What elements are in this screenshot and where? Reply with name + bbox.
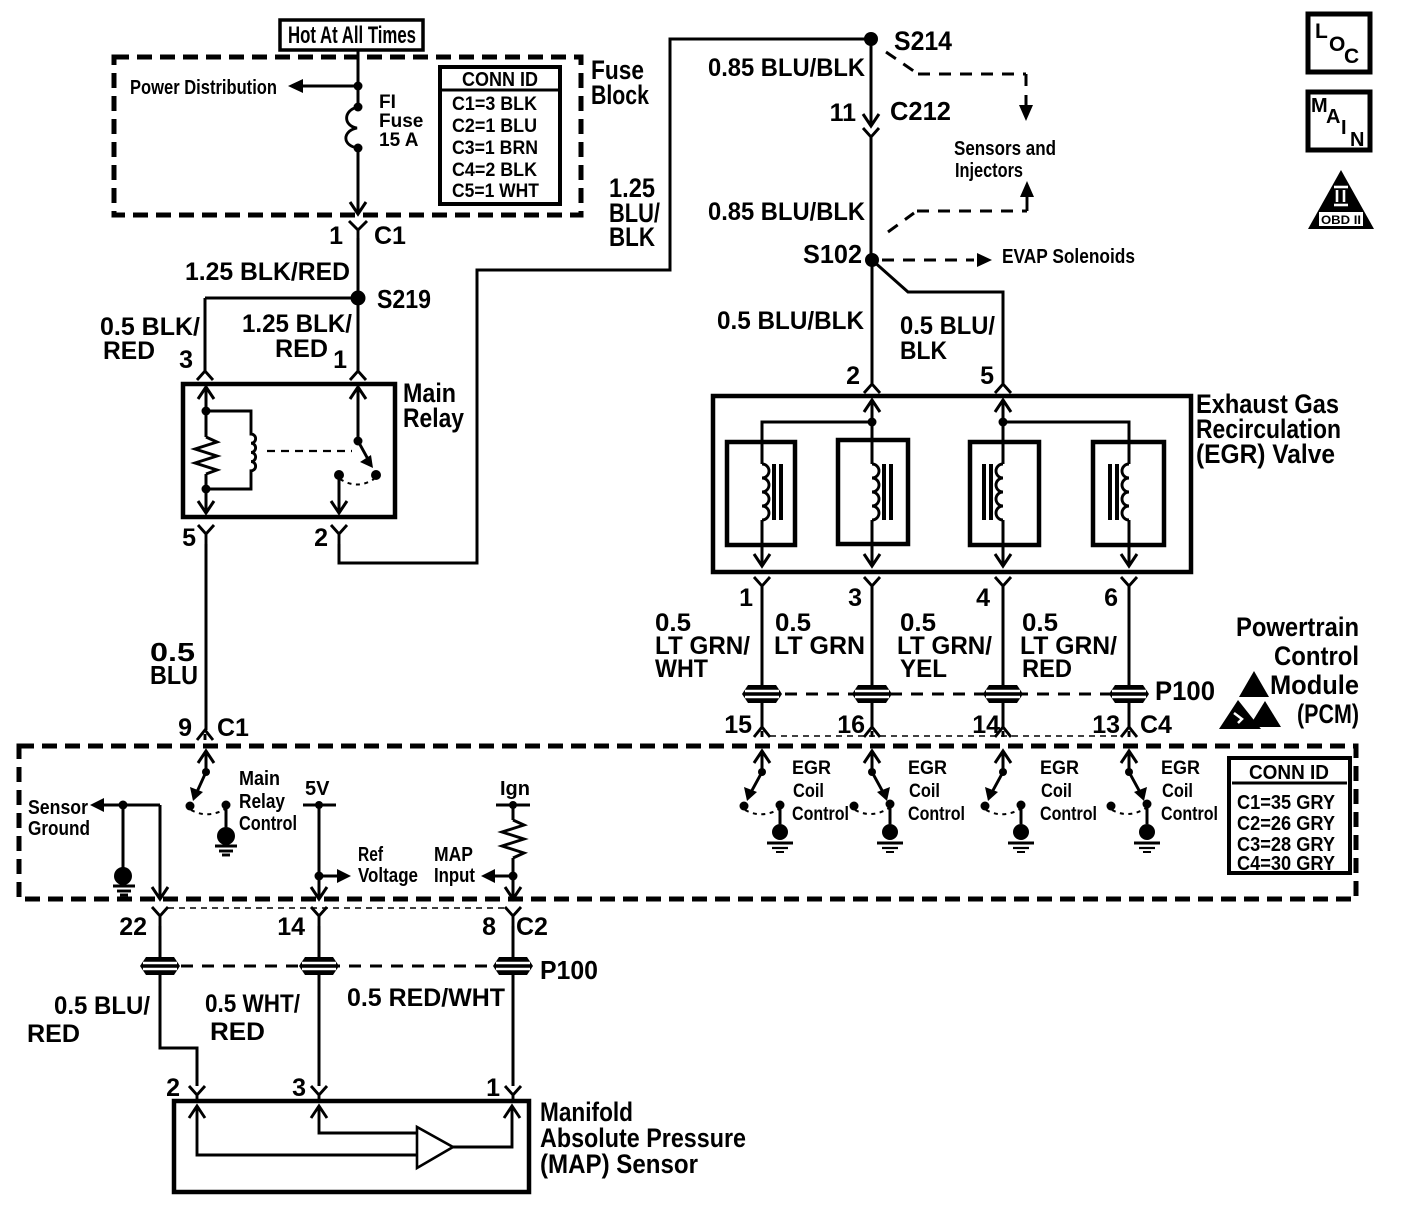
svg-text:LT GRN: LT GRN: [774, 632, 865, 660]
svg-text:(PCM): (PCM): [1297, 699, 1359, 729]
svg-text:C2=26 GRY: C2=26 GRY: [1237, 813, 1336, 835]
svg-text:RED: RED: [103, 337, 155, 365]
svg-text:Block: Block: [591, 80, 650, 110]
svg-text:RED: RED: [275, 335, 328, 363]
svg-text:Relay: Relay: [239, 791, 286, 813]
svg-text:Relay: Relay: [403, 403, 464, 433]
svg-text:Control: Control: [1274, 641, 1359, 671]
svg-text:BLK: BLK: [609, 222, 655, 252]
svg-text:0.5 BLU/: 0.5 BLU/: [900, 312, 995, 340]
svg-text:C5=1 WHT: C5=1 WHT: [452, 181, 539, 202]
svg-text:BLK: BLK: [900, 337, 947, 365]
svg-text:1.25 BLK/: 1.25 BLK/: [242, 310, 352, 338]
svg-text:Coil: Coil: [1162, 781, 1193, 802]
svg-text:C4=2 BLK: C4=2 BLK: [452, 160, 537, 181]
svg-text:Module: Module: [1270, 670, 1359, 700]
svg-text:C2: C2: [516, 913, 548, 941]
svg-text:A: A: [1326, 106, 1340, 128]
svg-text:Voltage: Voltage: [358, 865, 418, 887]
svg-text:C: C: [1344, 45, 1359, 68]
svg-text:EGR: EGR: [908, 758, 947, 779]
svg-text:22: 22: [119, 913, 147, 941]
svg-text:3: 3: [292, 1074, 306, 1102]
svg-text:13: 13: [1092, 711, 1120, 739]
svg-text:(MAP) Sensor: (MAP) Sensor: [540, 1149, 698, 1179]
svg-text:P100: P100: [1155, 676, 1215, 706]
svg-text:P100: P100: [540, 955, 598, 985]
svg-text:2: 2: [846, 362, 860, 390]
svg-text:0.5 BLU/: 0.5 BLU/: [54, 992, 150, 1020]
svg-text:14: 14: [277, 913, 305, 941]
svg-text:5: 5: [980, 362, 994, 390]
svg-text:L: L: [1315, 20, 1328, 43]
svg-text:C3=1 BRN: C3=1 BRN: [452, 138, 538, 159]
svg-text:EVAP Solenoids: EVAP Solenoids: [1002, 246, 1135, 268]
svg-text:3: 3: [179, 346, 193, 374]
svg-text:FI: FI: [379, 92, 396, 113]
svg-text:(EGR) Valve: (EGR) Valve: [1196, 439, 1335, 469]
svg-text:CONN ID: CONN ID: [462, 69, 538, 91]
svg-text:Control: Control: [1040, 804, 1097, 825]
svg-text:Control: Control: [239, 813, 297, 835]
svg-text:4: 4: [976, 584, 990, 612]
svg-text:Ground: Ground: [28, 818, 90, 840]
svg-text:1: 1: [333, 346, 347, 374]
svg-text:1: 1: [486, 1074, 500, 1102]
svg-text:Sensors and: Sensors and: [954, 138, 1056, 160]
svg-text:C212: C212: [890, 96, 951, 126]
svg-text:OBD II: OBD II: [1321, 213, 1361, 227]
svg-text:RED: RED: [27, 1020, 80, 1048]
svg-text:Control: Control: [908, 804, 965, 825]
svg-text:O: O: [1329, 33, 1345, 56]
svg-text:1: 1: [739, 584, 753, 612]
svg-text:YEL: YEL: [900, 655, 947, 683]
svg-text:Input: Input: [434, 865, 475, 887]
svg-text:C1: C1: [217, 714, 249, 742]
svg-text:BLU: BLU: [150, 660, 198, 690]
svg-text:C1: C1: [374, 222, 406, 250]
svg-text:WHT: WHT: [655, 655, 708, 683]
svg-text:CONN ID: CONN ID: [1249, 762, 1329, 784]
svg-text:Coil: Coil: [793, 781, 824, 802]
svg-text:Sensor: Sensor: [28, 797, 88, 819]
svg-text:RED: RED: [210, 1018, 265, 1046]
svg-text:16: 16: [837, 711, 865, 739]
svg-text:C2=1 BLU: C2=1 BLU: [452, 116, 537, 137]
svg-text:0.85 BLU/BLK: 0.85 BLU/BLK: [708, 198, 865, 226]
svg-text:6: 6: [1104, 584, 1118, 612]
svg-text:5: 5: [182, 524, 196, 552]
svg-text:I: I: [1341, 117, 1347, 139]
svg-text:Ign: Ign: [500, 778, 530, 800]
svg-text:Ref: Ref: [358, 844, 383, 866]
svg-text:C1=3 BLK: C1=3 BLK: [452, 94, 537, 115]
svg-text:S214: S214: [894, 26, 952, 56]
svg-text:Power Distribution: Power Distribution: [130, 77, 277, 99]
svg-text:C1=35 GRY: C1=35 GRY: [1237, 792, 1336, 814]
svg-text:2: 2: [166, 1074, 180, 1102]
svg-text:Coil: Coil: [909, 781, 940, 802]
svg-text:N: N: [1350, 129, 1364, 151]
svg-text:0.5 WHT/: 0.5 WHT/: [205, 990, 300, 1018]
svg-text:C4: C4: [1140, 711, 1172, 739]
svg-text:9: 9: [178, 714, 192, 742]
svg-text:RED: RED: [1022, 655, 1072, 683]
svg-text:Control: Control: [792, 804, 849, 825]
svg-text:S219: S219: [377, 284, 431, 314]
svg-text:EGR: EGR: [1040, 758, 1079, 779]
svg-text:0.85 BLU/BLK: 0.85 BLU/BLK: [708, 54, 865, 82]
svg-text:11: 11: [830, 99, 857, 127]
svg-text:15 A: 15 A: [379, 130, 419, 151]
svg-text:EGR: EGR: [1161, 758, 1200, 779]
svg-text:Injectors: Injectors: [955, 160, 1023, 182]
svg-text:Main: Main: [239, 768, 280, 790]
svg-text:0.5 RED/WHT: 0.5 RED/WHT: [347, 984, 505, 1012]
svg-text:0.5 BLU/BLK: 0.5 BLU/BLK: [717, 307, 864, 335]
svg-text:Control: Control: [1161, 804, 1218, 825]
svg-text:5V: 5V: [305, 778, 330, 800]
svg-text:Hot At All Times: Hot At All Times: [288, 22, 416, 49]
svg-text:Powertrain: Powertrain: [1236, 612, 1359, 642]
svg-text:MAP: MAP: [434, 844, 473, 866]
svg-text:2: 2: [314, 524, 328, 552]
svg-text:1: 1: [329, 222, 343, 250]
svg-text:Fuse: Fuse: [379, 111, 423, 132]
svg-text:EGR: EGR: [792, 758, 831, 779]
svg-text:S102: S102: [803, 239, 862, 269]
svg-text:C4=30 GRY: C4=30 GRY: [1237, 853, 1336, 875]
svg-text:15: 15: [724, 711, 752, 739]
svg-text:1.25 BLK/RED: 1.25 BLK/RED: [185, 258, 350, 286]
svg-text:8: 8: [482, 913, 496, 941]
svg-text:Coil: Coil: [1041, 781, 1072, 802]
svg-text:3: 3: [848, 584, 862, 612]
